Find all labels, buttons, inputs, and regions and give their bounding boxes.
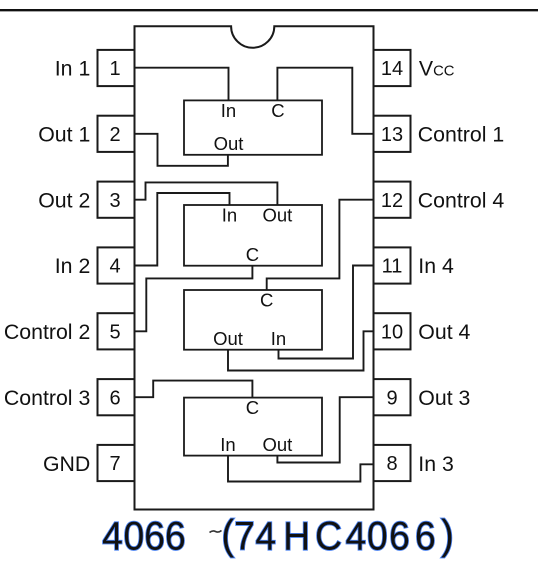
svg-text:6: 6	[165, 514, 186, 559]
svg-text:3: 3	[109, 190, 120, 212]
svg-text:Out 4: Out 4	[418, 320, 470, 344]
svg-text:0: 0	[123, 514, 144, 559]
svg-text:9: 9	[386, 387, 397, 409]
svg-text:In 1: In 1	[55, 57, 91, 81]
svg-text:4: 4	[346, 514, 367, 559]
svg-text:H: H	[283, 514, 310, 559]
svg-text:6: 6	[415, 514, 436, 559]
svg-text:6: 6	[144, 514, 165, 559]
svg-text:In 3: In 3	[418, 452, 454, 476]
svg-text:C: C	[271, 100, 284, 121]
svg-text:In 4: In 4	[418, 254, 454, 278]
svg-text:8: 8	[386, 453, 397, 475]
svg-text:In: In	[222, 205, 237, 226]
svg-text:4: 4	[255, 514, 276, 559]
svg-text:1: 1	[109, 58, 120, 80]
svg-text:C: C	[260, 290, 273, 311]
svg-text:In: In	[221, 100, 236, 121]
svg-text:12: 12	[381, 190, 403, 212]
svg-text:C: C	[246, 244, 259, 265]
svg-text:6: 6	[109, 387, 120, 409]
svg-text:7: 7	[234, 514, 255, 559]
svg-text:): )	[441, 513, 454, 559]
svg-text:7: 7	[109, 453, 120, 475]
svg-text:GND: GND	[43, 452, 90, 476]
svg-text:Control 2: Control 2	[4, 320, 90, 344]
svg-text:14: 14	[381, 58, 403, 80]
svg-text:Out: Out	[214, 133, 244, 154]
svg-text:Out 1: Out 1	[38, 122, 90, 146]
svg-text:5: 5	[109, 321, 120, 343]
svg-text:4: 4	[109, 256, 120, 278]
svg-text:Control 4: Control 4	[418, 188, 505, 212]
svg-text:2: 2	[109, 124, 120, 146]
svg-text:Out: Out	[262, 205, 292, 226]
svg-text:In: In	[271, 328, 286, 349]
svg-text:Out 2: Out 2	[38, 188, 90, 212]
svg-text:C: C	[246, 397, 259, 418]
svg-text:In 2: In 2	[55, 254, 91, 278]
svg-text:Out: Out	[262, 434, 292, 455]
svg-text:6: 6	[389, 514, 410, 559]
svg-text:Control 1: Control 1	[418, 122, 504, 146]
svg-text:VCC: VCC	[419, 57, 455, 81]
svg-text:10: 10	[381, 321, 403, 343]
svg-text:Out 3: Out 3	[418, 386, 470, 410]
svg-text:11: 11	[382, 256, 403, 278]
svg-text:(: (	[221, 513, 234, 559]
svg-text:0: 0	[367, 514, 388, 559]
svg-text:In: In	[220, 434, 235, 455]
svg-text:13: 13	[381, 124, 403, 146]
svg-text:Out: Out	[213, 328, 243, 349]
svg-text:4: 4	[102, 514, 123, 559]
svg-text:C: C	[315, 514, 342, 559]
svg-text:Control 3: Control 3	[4, 386, 90, 410]
